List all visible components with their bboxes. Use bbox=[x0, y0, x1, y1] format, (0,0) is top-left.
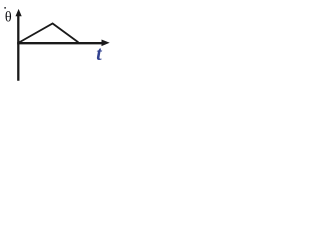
overdot of theta-dot bbox=[4, 7, 6, 9]
triangle waveform bbox=[19, 24, 79, 43]
svg-text:t: t bbox=[96, 44, 102, 65]
horizontal axis arrowhead bbox=[102, 40, 110, 47]
horizontal axis (t axis) shaft bbox=[17, 42, 102, 44]
vertical axis (theta-dot axis) shaft bbox=[17, 14, 19, 81]
svg-text:θ: θ bbox=[5, 10, 12, 26]
vertical axis arrowhead bbox=[16, 9, 22, 16]
